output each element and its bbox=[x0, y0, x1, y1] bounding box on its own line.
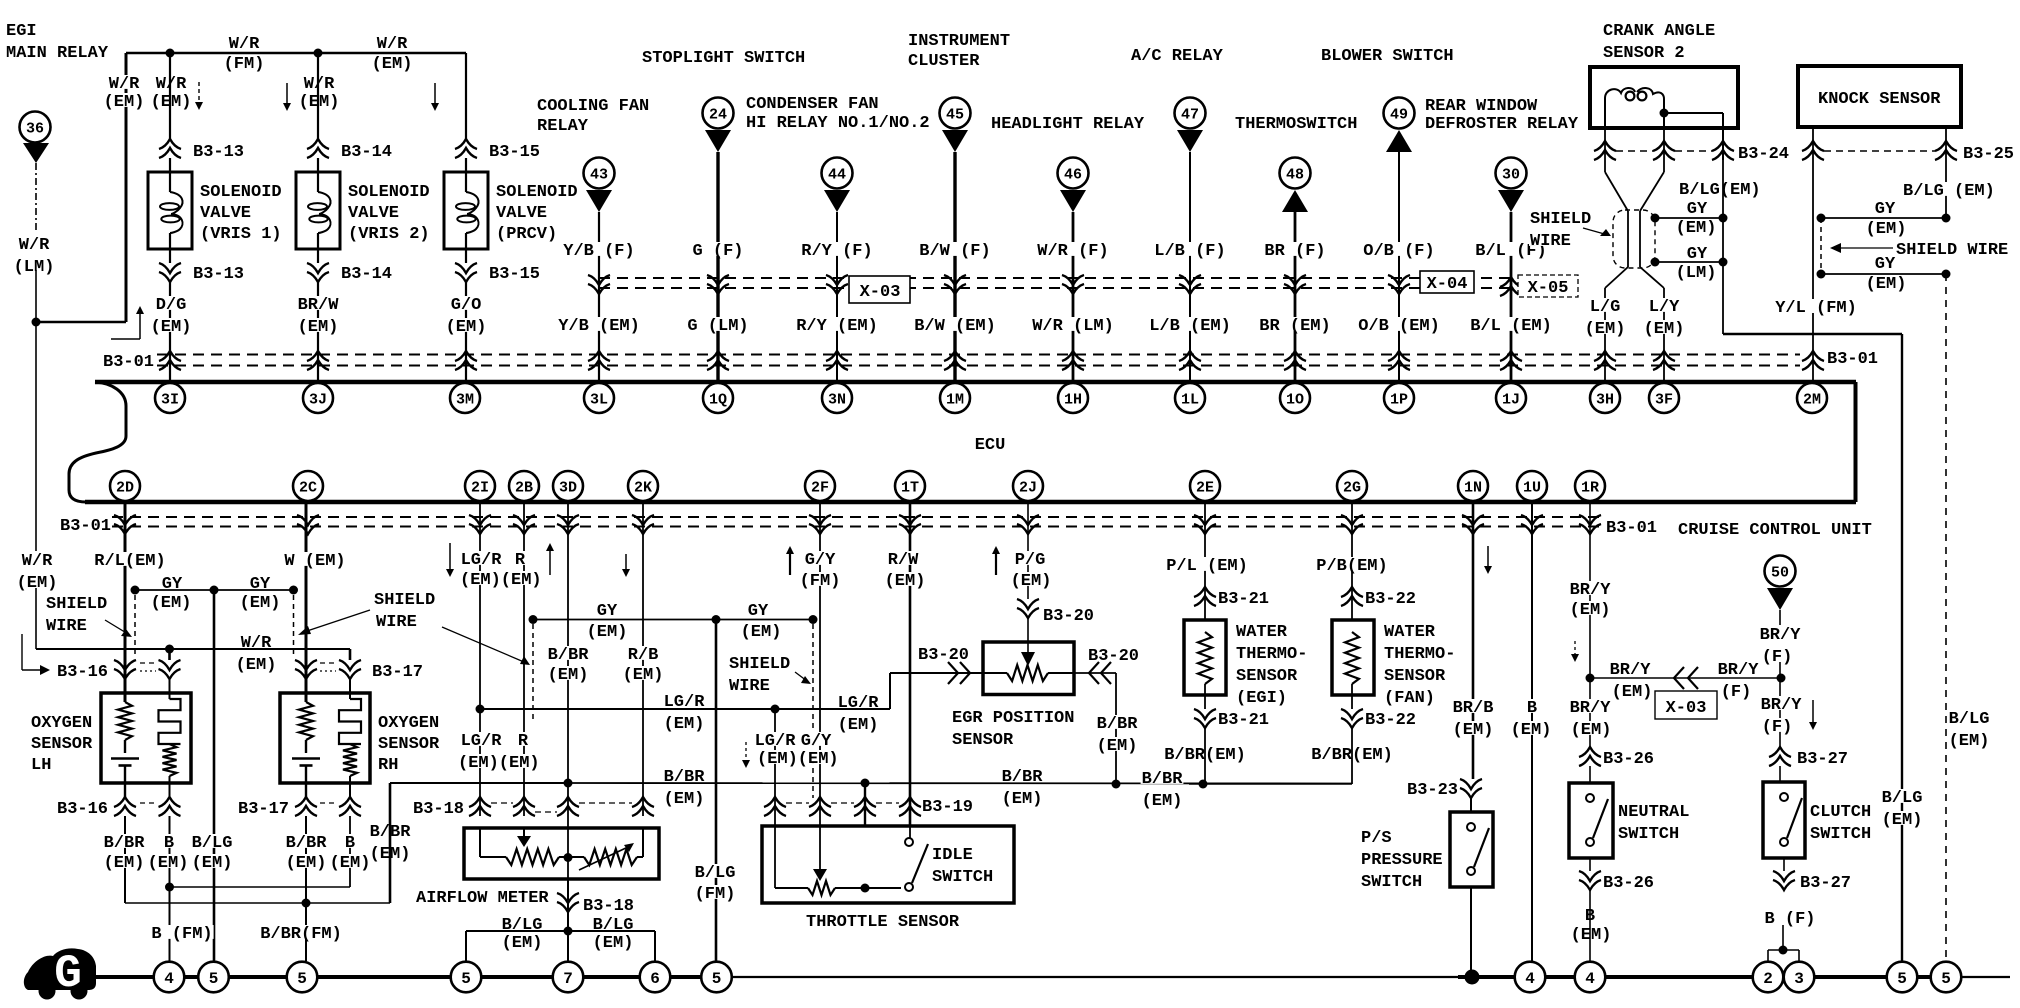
label Y/B (F) bbox=[562, 242, 635, 256]
svg-text:BR/Y: BR/Y bbox=[1718, 661, 1760, 680]
ECU pin 3F bbox=[1649, 383, 1679, 413]
svg-text:B3-15: B3-15 bbox=[489, 143, 540, 162]
svg-text:1U: 1U bbox=[1523, 479, 1541, 496]
svg-text:SHIELD: SHIELD bbox=[374, 591, 435, 610]
svg-text:GY: GY bbox=[1875, 255, 1896, 274]
svg-text:SWITCH: SWITCH bbox=[1810, 825, 1871, 844]
svg-text:WATER: WATER bbox=[1384, 623, 1436, 642]
down arrow at 1N bbox=[1487, 546, 1489, 572]
svg-text:B/BR: B/BR bbox=[664, 768, 706, 787]
wire knock sensor right B/LG bbox=[1945, 127, 1947, 218]
connector chevrons at B3-01 top bbox=[1500, 351, 1522, 361]
label B3-01 bottom right bbox=[1605, 519, 1658, 533]
svg-text:(EM): (EM) bbox=[17, 574, 58, 593]
label SOLENOID VALVE (VRIS 2) bbox=[347, 183, 431, 197]
wire from valve 1 to ECU bbox=[169, 281, 171, 380]
svg-text:B3-21: B3-21 bbox=[1218, 711, 1269, 730]
P/S switch blade bbox=[1474, 828, 1489, 867]
svg-text:B: B bbox=[164, 834, 174, 853]
label LG/R R (EM)(EM) upper bbox=[460, 551, 503, 565]
svg-text:G/O: G/O bbox=[451, 296, 482, 315]
label B3-18 lower bbox=[582, 897, 635, 911]
harness line X-03/X-04/X-05 dashed pair bbox=[599, 277, 1511, 279]
ground point 5 bbox=[198, 962, 229, 993]
svg-text:WIRE: WIRE bbox=[376, 613, 417, 632]
svg-text:THROTTLE SENSOR: THROTTLE SENSOR bbox=[806, 913, 960, 932]
water thermo sensor (FAN) thermistor bbox=[1345, 632, 1359, 684]
svg-text:B: B bbox=[345, 834, 355, 853]
ECU pin 2I bbox=[465, 471, 495, 501]
down arrow clutch bbox=[1812, 700, 1814, 728]
connector 45 arrow bbox=[942, 130, 968, 152]
label B/LG (EM) left bbox=[501, 916, 544, 930]
label SOLENOID VALVE (PRCV) bbox=[495, 183, 579, 197]
svg-text:(EM)(EM): (EM)(EM) bbox=[460, 571, 542, 590]
wire B/L (F) from connector 30 bbox=[1510, 212, 1513, 380]
label SHIELD WIRE knock bbox=[1895, 241, 2009, 255]
svg-text:B/LG: B/LG bbox=[1949, 710, 1990, 729]
oxygen sensor RH heater bbox=[349, 678, 351, 699]
svg-text:SHIELD: SHIELD bbox=[46, 595, 107, 614]
connector B3-16 chevrons above LH sensor bbox=[114, 660, 136, 670]
svg-text:P/L (EM): P/L (EM) bbox=[1166, 557, 1248, 576]
junction dot B/BR RH bbox=[302, 899, 311, 908]
connector X-03 chevrons left-pointing bbox=[1674, 667, 1684, 689]
svg-text:W/R: W/R bbox=[229, 35, 260, 54]
solenoid valve 3 coil bbox=[465, 158, 467, 192]
svg-text:BR (EM): BR (EM) bbox=[1259, 317, 1330, 336]
svg-text:X-03: X-03 bbox=[860, 283, 901, 302]
label B/W (EM) bbox=[913, 317, 997, 331]
svg-text:(VRIS 2): (VRIS 2) bbox=[348, 225, 430, 244]
svg-text:SENSOR: SENSOR bbox=[378, 735, 440, 754]
svg-text:O/B (F): O/B (F) bbox=[1363, 242, 1434, 261]
connector 36 arrow bbox=[23, 143, 49, 163]
ECU pin 3N bbox=[822, 383, 852, 413]
junction dot B/BR at thermo EGI bbox=[1199, 780, 1208, 789]
svg-text:(FM): (FM) bbox=[800, 572, 841, 591]
svg-text:A/C RELAY: A/C RELAY bbox=[1131, 47, 1224, 66]
label B3-01 top left bbox=[102, 353, 155, 367]
svg-text:B (FM): B (FM) bbox=[151, 925, 212, 944]
label L/Y (EM) bbox=[1648, 298, 1681, 312]
ECU pin 2B bbox=[509, 471, 539, 501]
junction dot crank sensor coil tap bbox=[1660, 109, 1669, 118]
junction dot GY B/LG ground bbox=[712, 615, 721, 624]
svg-text:7: 7 bbox=[563, 970, 573, 988]
label B3-15 bbox=[488, 143, 541, 157]
svg-text:5: 5 bbox=[712, 970, 722, 988]
connector 47 arrow bbox=[1177, 130, 1203, 152]
label P wire bbox=[1165, 557, 1249, 571]
svg-text:B3-16: B3-16 bbox=[57, 800, 108, 819]
connector chevrons at B3-01 top bbox=[707, 351, 729, 361]
idle switch contacts bbox=[905, 838, 913, 846]
connector 44 arrow bbox=[824, 190, 850, 212]
label EGI MAIN RELAY bbox=[5, 22, 38, 36]
label SHIELD WIRE throttle bbox=[728, 655, 791, 669]
svg-text:BR/Y: BR/Y bbox=[1760, 626, 1802, 645]
svg-text:5: 5 bbox=[209, 970, 219, 988]
wire GY (LM) crank lower bbox=[1655, 261, 1723, 263]
svg-text:B3-20: B3-20 bbox=[1088, 647, 1139, 666]
svg-text:5: 5 bbox=[461, 970, 471, 988]
down arrow beside PRCV bbox=[434, 83, 436, 109]
label IDLE SWITCH bbox=[931, 846, 974, 860]
oxygen sensor RH box bbox=[280, 693, 370, 783]
svg-text:BR/Y: BR/Y bbox=[1761, 696, 1803, 715]
wire L/Y (EM) to 3F bbox=[1663, 288, 1665, 380]
neutral switch blade bbox=[1593, 799, 1608, 838]
wire BR/Y (F) down bbox=[1779, 678, 1781, 748]
connector B3-18 chevrons below airflow bbox=[557, 893, 579, 903]
svg-text:CRUISE CONTROL UNIT: CRUISE CONTROL UNIT bbox=[1678, 521, 1872, 540]
connector 46 circle bbox=[1058, 158, 1089, 189]
wire B/LG (EM) airflow ground bbox=[567, 879, 569, 961]
svg-text:R: R bbox=[518, 732, 529, 751]
svg-text:2C: 2C bbox=[299, 479, 317, 496]
svg-text:B3-17: B3-17 bbox=[238, 800, 289, 819]
wire R/W (EM) from 1T bbox=[909, 504, 912, 826]
junction dot BR/Y clutch bbox=[1777, 674, 1786, 683]
svg-text:(EM): (EM) bbox=[885, 572, 926, 591]
wire P from ECU to thermo (FAN) bbox=[1351, 504, 1353, 620]
label STOPLIGHT SWITCH bbox=[641, 49, 806, 63]
label W (EM) bbox=[283, 552, 346, 566]
svg-text:B/BR: B/BR bbox=[286, 834, 328, 853]
down arrow at 2I bbox=[449, 543, 451, 575]
svg-text:GY: GY bbox=[1875, 200, 1896, 219]
label B/L (F) bbox=[1474, 242, 1547, 256]
direction arrow up at B3-01 bbox=[111, 338, 140, 340]
wire B/BR link to main B/BR bbox=[125, 902, 390, 904]
svg-text:(EM): (EM) bbox=[1585, 320, 1626, 339]
svg-text:D/G: D/G bbox=[156, 296, 187, 315]
P/S pressure switch box bbox=[1470, 797, 1472, 812]
label SOLENOID VALVE (VRIS 1) bbox=[199, 183, 283, 197]
svg-text:36: 36 bbox=[26, 120, 44, 137]
label LG/R R (EM)(EM) lower bbox=[460, 732, 503, 746]
wire neutral switch to ground bbox=[1589, 889, 1591, 961]
svg-text:VALVE: VALVE bbox=[200, 204, 251, 223]
svg-text:PRESSURE: PRESSURE bbox=[1361, 851, 1443, 870]
svg-text:(EM): (EM) bbox=[1612, 683, 1653, 702]
label B/BR (EM) mid2 bbox=[1001, 768, 1044, 782]
svg-text:BLOWER SWITCH: BLOWER SWITCH bbox=[1321, 47, 1454, 66]
harness B3-01 top dashed pair bbox=[157, 354, 1800, 356]
svg-text:B3-14: B3-14 bbox=[341, 143, 392, 162]
wire GY (EM) knock lower bbox=[1821, 273, 1946, 275]
label SHIELD WIRE middle bbox=[373, 591, 436, 605]
wire B/LG (EM) to ground 6 bbox=[568, 930, 655, 932]
svg-text:B/BR: B/BR bbox=[1142, 770, 1184, 789]
label B/LG (EM) bbox=[1902, 182, 1996, 196]
wire B/LG (EM) to ground 5 bbox=[466, 930, 568, 932]
svg-text:2D: 2D bbox=[116, 479, 134, 496]
svg-text:LG/R: LG/R bbox=[838, 694, 880, 713]
svg-text:W/R: W/R bbox=[377, 35, 408, 54]
label B (EM) bbox=[1584, 907, 1596, 921]
svg-text:LH: LH bbox=[31, 756, 51, 775]
svg-text:1T: 1T bbox=[901, 479, 919, 496]
wire P/G into EGR bbox=[1027, 617, 1029, 652]
solenoid valve 1 coil bbox=[169, 158, 171, 192]
wire B/LG tap down bbox=[1722, 160, 1724, 334]
svg-text:VALVE: VALVE bbox=[496, 204, 547, 223]
label Y/L (FM) bbox=[1774, 299, 1858, 313]
svg-text:SENSOR: SENSOR bbox=[31, 735, 93, 754]
svg-text:5: 5 bbox=[1897, 970, 1907, 988]
svg-text:(EM): (EM) bbox=[741, 623, 782, 642]
label BR/Y (EM) link bbox=[1609, 661, 1652, 675]
label W/R (EM) bbox=[21, 552, 54, 566]
label AIRFLOW METER bbox=[415, 889, 550, 903]
svg-text:B3-26: B3-26 bbox=[1603, 874, 1654, 893]
arrow to LH shield bbox=[105, 620, 128, 634]
svg-text:(LM): (LM) bbox=[1676, 264, 1717, 283]
connector chevrons at B3-01 top bbox=[826, 351, 848, 361]
connector chevrons at X harness bbox=[944, 275, 966, 285]
crank angle sensor 2 box bbox=[1590, 67, 1738, 128]
label B3-27 upper bbox=[1796, 750, 1849, 764]
wire D/BR (EM) down bbox=[1115, 673, 1117, 784]
svg-text:P/G: P/G bbox=[1015, 551, 1046, 570]
label B3-13 bbox=[192, 143, 245, 157]
svg-text:(EM): (EM) bbox=[1949, 732, 1990, 751]
wire B/LG (FM) to ground bbox=[715, 620, 718, 962]
wire B (EM) RH down bbox=[349, 816, 351, 887]
arrow to shield wire knock bbox=[1838, 247, 1893, 249]
ECU pin 3L bbox=[584, 383, 614, 413]
label EGR POSITION SENSOR bbox=[951, 709, 1075, 723]
svg-text:LG/R: LG/R bbox=[664, 693, 706, 712]
svg-text:46: 46 bbox=[1064, 166, 1082, 183]
label GY (EM) bbox=[596, 602, 618, 616]
ECU pin 3I bbox=[155, 383, 185, 413]
wire L/G (EM) to 3H bbox=[1604, 288, 1606, 380]
label CLUTCH SWITCH bbox=[1809, 803, 1872, 817]
label L/B (F) bbox=[1153, 242, 1226, 256]
svg-text:5: 5 bbox=[297, 970, 307, 988]
connector B3-20 chevron left-pointing bbox=[1089, 662, 1099, 684]
svg-text:BR/Y: BR/Y bbox=[1610, 661, 1652, 680]
label B/BR (FM) bbox=[259, 925, 343, 939]
svg-text:(EM): (EM) bbox=[1511, 721, 1552, 740]
svg-text:B3-27: B3-27 bbox=[1800, 874, 1851, 893]
svg-text:3I: 3I bbox=[161, 391, 179, 408]
svg-text:(EM): (EM) bbox=[1011, 572, 1052, 591]
svg-text:B3-19: B3-19 bbox=[922, 798, 973, 817]
label W/R (EM) bbox=[376, 35, 409, 49]
svg-text:WATER: WATER bbox=[1236, 623, 1288, 642]
label THROTTLE SENSOR bbox=[805, 913, 960, 927]
label B/BR (EM) bbox=[1163, 746, 1247, 760]
svg-text:B/BR(FM): B/BR(FM) bbox=[260, 925, 342, 944]
connector 44 circle bbox=[822, 158, 853, 189]
wire BR/Y link bbox=[1590, 677, 1781, 679]
svg-text:B/BR: B/BR bbox=[1002, 768, 1044, 787]
svg-text:B/LG: B/LG bbox=[593, 916, 634, 935]
label B3-14 bbox=[340, 265, 393, 279]
connector chevrons at X harness bbox=[588, 275, 610, 285]
connector B3-15 chevrons above valve 3 bbox=[455, 139, 477, 149]
ECU pin 1H bbox=[1058, 383, 1088, 413]
ECU pin 2F bbox=[805, 471, 835, 501]
connector chevrons at X harness bbox=[826, 275, 848, 285]
svg-text:B3-22: B3-22 bbox=[1365, 590, 1416, 609]
svg-text:(EM): (EM) bbox=[236, 656, 277, 675]
svg-text:G (LM): G (LM) bbox=[687, 317, 748, 336]
wire GY (EM) crank upper bbox=[1655, 217, 1723, 219]
label B (F) bbox=[1764, 910, 1817, 924]
connector B3-22 chevrons lower bbox=[1351, 695, 1353, 709]
svg-text:(EM): (EM) bbox=[623, 666, 664, 685]
airflow meter box bbox=[464, 828, 659, 879]
svg-text:SOLENOID: SOLENOID bbox=[200, 183, 282, 202]
ECU bottom bus bbox=[85, 500, 1856, 505]
label B/L (EM) bbox=[1469, 317, 1553, 331]
connector 36 circle bbox=[20, 112, 51, 143]
label THERMOSWITCH bbox=[1234, 115, 1358, 129]
connector 46 arrow bbox=[1060, 190, 1086, 212]
wire EGI main relay vertical W/R (EM) bbox=[125, 53, 128, 322]
connector chevrons at B3-01 top bbox=[1062, 351, 1084, 361]
ECU pin 3M bbox=[450, 383, 480, 413]
wire B/BR throttle branch bbox=[864, 783, 866, 826]
label B3-17 upper bbox=[371, 663, 424, 677]
oxygen sensor LH cell battery symbol bbox=[111, 757, 139, 760]
svg-text:(EM): (EM) bbox=[151, 594, 192, 613]
svg-text:B3-20: B3-20 bbox=[918, 646, 969, 665]
svg-text:G (F): G (F) bbox=[692, 242, 743, 261]
svg-text:W/R (LM): W/R (LM) bbox=[1032, 317, 1114, 336]
svg-text:B3-16: B3-16 bbox=[57, 663, 108, 682]
label W/R (F) bbox=[1036, 242, 1109, 256]
svg-text:SWITCH: SWITCH bbox=[932, 868, 993, 887]
svg-text:SENSOR 2: SENSOR 2 bbox=[1603, 44, 1685, 63]
wire B/BR (EM) RH down bbox=[305, 816, 307, 961]
label CONDENSER FAN HI RELAY bbox=[745, 95, 880, 109]
wire W/R (F) from connector 46 bbox=[1072, 212, 1075, 380]
wire B link LH-RH bbox=[170, 886, 351, 888]
solenoid valve 3 box bbox=[444, 172, 488, 249]
ECU pin 1U bbox=[1517, 471, 1547, 501]
svg-text:1Q: 1Q bbox=[709, 391, 727, 408]
wire BR (F) from connector 48 bbox=[1294, 212, 1297, 380]
label G/Y (FM) bbox=[804, 551, 837, 565]
svg-text:3D: 3D bbox=[559, 479, 577, 496]
svg-text:B3-23: B3-23 bbox=[1407, 781, 1458, 800]
svg-text:B (F): B (F) bbox=[1764, 910, 1815, 929]
svg-text:2B: 2B bbox=[515, 479, 533, 496]
connector B3-21 chevrons upper bbox=[1194, 587, 1216, 597]
label W/R (FM) bbox=[228, 35, 261, 49]
shield wire dashed throttle bbox=[812, 624, 814, 798]
connector chevrons at X harness bbox=[1388, 275, 1410, 285]
harness B3-01 bottom dashed pair bbox=[112, 516, 1600, 518]
wire joint EGI relay to node 36 bbox=[36, 321, 126, 323]
label GY (EM) bbox=[161, 575, 183, 589]
svg-text:(VRIS 1): (VRIS 1) bbox=[200, 225, 282, 244]
label R/L(EM) bbox=[93, 552, 166, 566]
junction dot GY middle B/LG bbox=[210, 586, 219, 595]
svg-text:(EM): (EM) bbox=[593, 934, 634, 953]
svg-text:B3-20: B3-20 bbox=[1043, 607, 1094, 626]
connector X-03 box bbox=[849, 276, 910, 303]
wire EGR right to B/BR bbox=[1074, 672, 1116, 674]
wire W/R (EM) left vertical bbox=[35, 270, 37, 551]
label P/S PRESSURE SWITCH bbox=[1360, 829, 1393, 843]
label G/O (EM) bbox=[450, 296, 483, 310]
svg-text:(EM): (EM) bbox=[372, 55, 413, 74]
svg-text:B/BR: B/BR bbox=[104, 834, 146, 853]
ground symbol G car icon bbox=[24, 948, 96, 1000]
svg-text:B3-01: B3-01 bbox=[60, 517, 111, 536]
svg-text:B/LG: B/LG bbox=[502, 916, 543, 935]
svg-text:1R: 1R bbox=[1581, 479, 1599, 496]
svg-text:W/R: W/R bbox=[156, 75, 187, 94]
clutch switch box bbox=[1779, 766, 1781, 782]
label BR/W (EM) bbox=[297, 296, 340, 310]
label G (LM) bbox=[686, 317, 749, 331]
connector 49 circle bbox=[1384, 98, 1415, 129]
svg-text:(EM): (EM) bbox=[838, 716, 879, 735]
label B3-27 lower bbox=[1799, 874, 1852, 888]
svg-text:B/W (F): B/W (F) bbox=[919, 242, 990, 261]
connector B3-25 chevrons bbox=[1802, 141, 1824, 151]
svg-text:L/Y: L/Y bbox=[1649, 298, 1680, 317]
label B/BR (EM) bbox=[1310, 746, 1394, 760]
wire Y/B (F) from connector 43 bbox=[598, 212, 600, 380]
label BR/Y (F) bbox=[1759, 626, 1802, 640]
label WATER THERMO-SENSOR (EGI) bbox=[1235, 623, 1288, 637]
svg-text:(LM): (LM) bbox=[14, 258, 55, 277]
svg-text:3L: 3L bbox=[590, 391, 608, 408]
label B3-01 bottom left bbox=[59, 517, 112, 531]
EGR position sensor box bbox=[983, 642, 1074, 695]
wire LG/R (EM) distribution bbox=[480, 708, 890, 710]
svg-text:P/B(EM): P/B(EM) bbox=[1316, 557, 1387, 576]
label OXYGEN SENSOR RH bbox=[377, 714, 440, 728]
connector chevrons at X harness bbox=[1284, 275, 1306, 285]
junction dot at valve VRIS2 feed bbox=[314, 49, 323, 58]
svg-text:(EM): (EM) bbox=[1866, 220, 1907, 239]
svg-text:(EM): (EM) bbox=[330, 854, 371, 873]
svg-text:NEUTRAL: NEUTRAL bbox=[1618, 803, 1689, 822]
wire B/LG (EM) center to ground bbox=[213, 590, 216, 961]
wire B/LG (EM) crank to ground route bbox=[1723, 333, 1902, 335]
wire B/BR (EM) main bus bbox=[568, 782, 1352, 785]
svg-text:BR/Y: BR/Y bbox=[1570, 581, 1612, 600]
label B3-20 left bbox=[917, 646, 970, 660]
label B3-26 upper bbox=[1602, 750, 1655, 764]
label W/R (EM) on EGI wire bbox=[108, 75, 141, 89]
junction dot ground bus P/S bbox=[1465, 970, 1480, 985]
svg-text:L/G: L/G bbox=[1590, 298, 1621, 317]
svg-text:1N: 1N bbox=[1464, 479, 1482, 496]
svg-text:HEADLIGHT RELAY: HEADLIGHT RELAY bbox=[991, 115, 1145, 134]
svg-text:WIRE: WIRE bbox=[729, 677, 770, 696]
water thermo sensor (EGI) thermistor bbox=[1198, 632, 1212, 684]
label NEUTRAL SWITCH bbox=[1617, 803, 1690, 817]
svg-text:WIRE: WIRE bbox=[1530, 232, 1571, 251]
svg-text:B3-14: B3-14 bbox=[341, 265, 392, 284]
svg-text:R/Y (F): R/Y (F) bbox=[801, 242, 872, 261]
svg-text:W/R: W/R bbox=[304, 75, 335, 94]
svg-text:HI RELAY NO.1/NO.2: HI RELAY NO.1/NO.2 bbox=[746, 114, 930, 133]
label OXYGEN SENSOR LH bbox=[30, 714, 93, 728]
airflow meter wiper arrow bbox=[523, 828, 525, 836]
